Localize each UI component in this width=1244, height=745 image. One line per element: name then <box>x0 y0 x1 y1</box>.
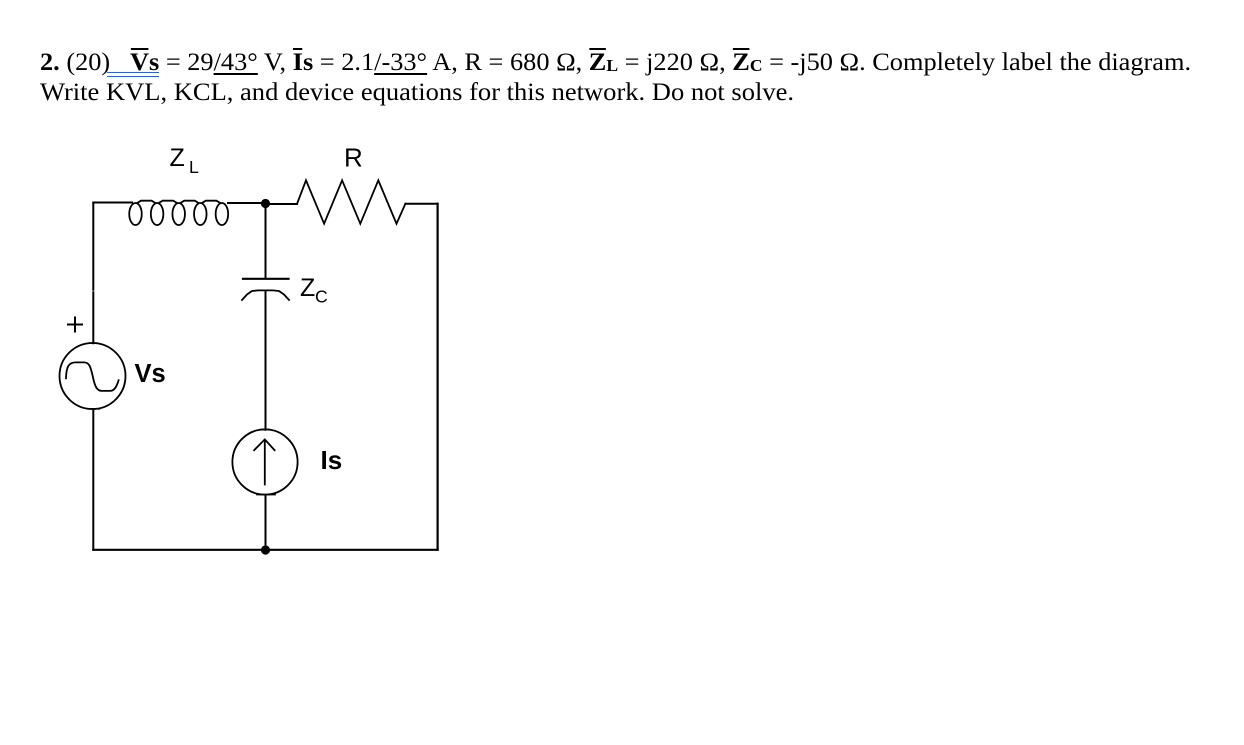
wire left rail lower <box>92 409 94 550</box>
current source Is <box>232 429 297 494</box>
node A junction dot <box>261 199 270 208</box>
svg-text:R: R <box>344 142 363 172</box>
wire left rail upper <box>92 203 94 344</box>
svg-text:Z: Z <box>170 144 185 172</box>
resistor R <box>297 180 405 223</box>
svg-text:L: L <box>189 157 199 177</box>
wire node A to resistor <box>266 203 297 205</box>
wire top-left horizontal <box>93 202 132 204</box>
wire inductor to node A <box>228 202 266 204</box>
voltage source Vs <box>60 343 126 409</box>
wire current source to bottom node <box>265 495 267 550</box>
inductor ZL <box>129 201 228 225</box>
polarity + <box>68 318 82 332</box>
wire bottom rail <box>93 549 437 551</box>
wire right rail <box>437 204 439 550</box>
capacitor Zc <box>243 278 289 280</box>
grammar double underline <box>107 72 159 74</box>
bottom node junction dot <box>261 545 270 554</box>
svg-text:C: C <box>315 286 328 306</box>
wire resistor to top-right corner <box>405 203 437 205</box>
wire node A to capacitor <box>265 203 267 279</box>
wire capacitor to current source <box>265 291 267 430</box>
svg-text:Is: Is <box>321 445 343 475</box>
svg-text:Z: Z <box>300 274 315 302</box>
svg-text:Vs: Vs <box>135 360 166 388</box>
